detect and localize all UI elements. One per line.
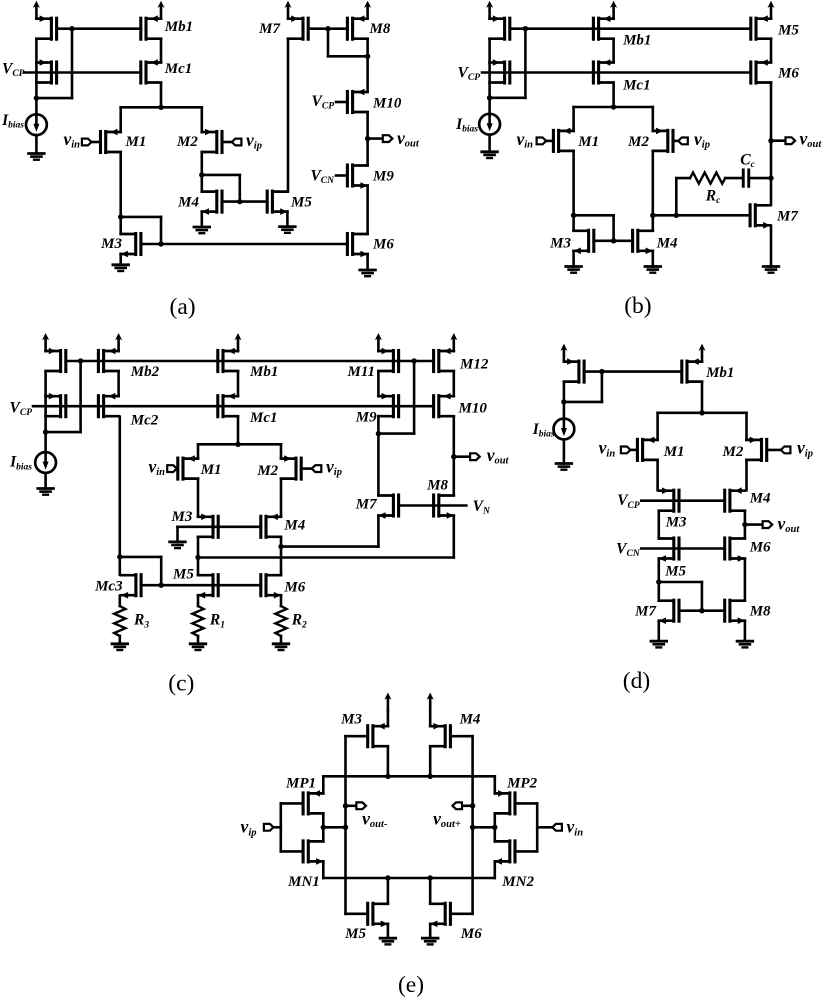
svg-text:M12: M12 [459,356,489,372]
svg-text:M9: M9 [372,168,394,184]
svg-text:Mc3: Mc3 [94,579,123,595]
svg-text:Mc2: Mc2 [130,413,159,429]
svg-text:M4: M4 [459,711,481,727]
svg-text:M10: M10 [458,400,488,416]
svg-text:(d): (d) [623,668,650,694]
svg-text:M6: M6 [283,580,305,596]
svg-text:M7: M7 [634,604,656,620]
svg-text:Mb1: Mb1 [164,19,193,35]
svg-text:MN1: MN1 [287,874,320,890]
svg-text:M8: M8 [426,477,448,493]
svg-text:M1: M1 [577,134,599,150]
svg-text:M1: M1 [200,462,222,478]
svg-text:M5: M5 [777,23,799,39]
svg-text:(c): (c) [168,671,194,697]
svg-text:Mc1: Mc1 [249,410,278,426]
svg-text:Mb1: Mb1 [705,365,734,381]
svg-text:M6: M6 [372,236,394,252]
svg-text:M7: M7 [355,496,377,512]
svg-text:M8: M8 [749,604,771,620]
svg-text:M4: M4 [177,194,199,210]
svg-text:M10: M10 [372,95,402,111]
svg-text:(a): (a) [170,294,196,320]
svg-text:M6: M6 [777,66,799,82]
svg-text:MP1: MP1 [285,775,316,791]
svg-text:M4: M4 [283,517,305,533]
svg-text:M6: M6 [460,926,482,942]
svg-text:M11: M11 [346,364,375,380]
svg-text:M3: M3 [100,236,122,252]
svg-text:MN2: MN2 [501,874,534,890]
svg-text:M3: M3 [340,711,362,727]
svg-text:Mb1: Mb1 [249,364,278,380]
svg-text:M2: M2 [722,444,744,460]
svg-text:M7: M7 [258,21,280,37]
svg-text:M2: M2 [256,463,278,479]
svg-text:(b): (b) [624,293,651,319]
svg-text:Mb2: Mb2 [130,364,160,380]
svg-text:Mb1: Mb1 [622,32,651,48]
svg-text:M3: M3 [549,235,571,251]
svg-text:M2: M2 [176,134,198,150]
svg-text:Mc1: Mc1 [622,77,651,93]
svg-text:M8: M8 [369,21,391,37]
svg-text:(e): (e) [398,972,424,998]
svg-text:M4: M4 [656,235,678,251]
svg-text:M5: M5 [172,567,194,583]
svg-text:M5: M5 [344,926,366,942]
svg-text:M6: M6 [749,540,771,556]
svg-text:M1: M1 [663,444,685,460]
svg-text:M5: M5 [664,564,686,580]
svg-text:M3: M3 [665,514,687,530]
svg-text:M3: M3 [171,509,193,525]
svg-text:MP2: MP2 [506,775,537,791]
svg-text:Mc1: Mc1 [164,61,193,77]
svg-text:M5: M5 [290,194,312,210]
svg-text:M7: M7 [776,208,798,224]
svg-text:M2: M2 [627,134,649,150]
svg-text:M1: M1 [125,134,147,150]
svg-text:M9: M9 [355,409,377,425]
svg-text:M4: M4 [749,490,771,506]
